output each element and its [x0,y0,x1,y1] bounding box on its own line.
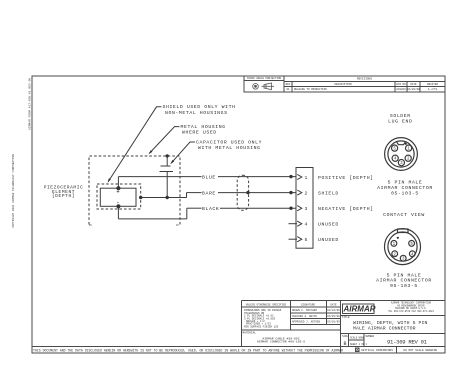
svg-text:AIRMAR CONNECTOR: AIRMAR CONNECTOR [376,278,432,284]
svg-text:B: B [343,341,346,347]
svg-text:5 PIN MALE: 5 PIN MALE [388,180,423,186]
svg-text:MALE AIRMAR CONNECTOR: MALE AIRMAR CONNECTOR [353,325,416,331]
svg-text:SHIELD: SHIELD [318,190,339,196]
svg-text:WIRING, DEPTH, WITH 5 PIN: WIRING, DEPTH, WITH 5 PIN [353,320,427,326]
svg-text:4: 4 [305,222,308,228]
svg-text:AIRMAR: AIRMAR [343,304,376,313]
svg-text:MIN SURFACE FINISH 125: MIN SURFACE FINISH 125 [244,325,279,328]
svg-text:03/26/99: 03/26/99 [327,320,340,324]
svg-text:MATERIAL: MATERIAL [243,332,257,335]
svg-text:040269: 040269 [396,88,406,91]
svg-text:CHECKED A. WHITE: CHECKED A. WHITE [292,315,317,318]
svg-text:AIRMAR CONNECTOR: AIRMAR CONNECTOR [377,185,433,191]
svg-text:DESCRIPTION: DESCRIPTION [334,83,352,86]
svg-text:TITLE: TITLE [342,316,350,319]
svg-text:BARE: BARE [202,190,216,196]
svg-text:91-369 REV 01: 91-369 REV 01 [387,339,428,346]
svg-text:UNUSED: UNUSED [318,222,339,228]
svg-text:NUMBER: NUMBER [366,335,375,338]
svg-text:DATE: DATE [410,83,417,86]
svg-text:POSITIVE [DEPTH]: POSITIVE [DEPTH] [318,175,374,181]
svg-text:DO NOT SCALE DRAWING: DO NOT SCALE DRAWING [404,349,438,352]
svg-text:REV: REV [286,83,291,86]
svg-text:COPYRIGHT 2001 AIRMAR TECHNOLO: COPYRIGHT 2001 AIRMAR TECHNOLOGY CORPORA… [12,154,15,228]
svg-text:CONTACT VIEW: CONTACT VIEW [383,212,425,218]
svg-text:ECO NO: ECO NO [396,83,406,86]
svg-text:LUG END: LUG END [388,118,412,124]
svg-text:BLACK: BLACK [202,206,219,212]
svg-text:SHEET 1 OF 1: SHEET 1 OF 1 [350,343,368,346]
svg-text:DRAFTER: DRAFTER [427,83,438,86]
svg-text:UNUSED: UNUSED [318,237,339,243]
svg-text:DATE: DATE [330,303,337,306]
svg-text:05-103-5: 05-103-5 [390,283,418,289]
svg-text:5: 5 [305,237,308,243]
svg-text:WHERE USED: WHERE USED [182,130,217,136]
svg-text:01: 01 [286,88,290,91]
svg-text:03/24/99: 03/24/99 [327,308,340,312]
svg-text:AIRMAR FORM #17-030-01 REV 00: AIRMAR FORM #17-030-01 REV 00 [29,78,32,130]
svg-text:SOLDER: SOLDER [390,113,411,119]
svg-text:AIRMAR CONNECTOR #05-103-5: AIRMAR CONNECTOR #05-103-5 [257,340,305,344]
svg-text:CRITICAL DIMENSIONS: CRITICAL DIMENSIONS [361,349,393,352]
svg-text:THIRD ANGLE PROJECTION: THIRD ANGLE PROJECTION [247,77,282,80]
svg-text:SIGNATURE: SIGNATURE [301,303,315,306]
svg-text:APPROVED J. AETKEN: APPROVED J. AETKEN [292,321,320,324]
svg-text:NEGATIVE [DEPTH]: NEGATIVE [DEPTH] [318,206,374,212]
svg-text:BLUE: BLUE [202,174,216,180]
svg-text:3: 3 [305,206,308,212]
svg-text:[DEPTH]: [DEPTH] [52,193,75,199]
svg-text:UNLESS OTHERWISE SPECIFIED: UNLESS OTHERWISE SPECIFIED [246,303,287,306]
svg-text:5 PIN MALE: 5 PIN MALE [387,272,422,278]
svg-text:05-103-5: 05-103-5 [391,191,419,197]
svg-text:RELEASE TO PRODUCTION: RELEASE TO PRODUCTION [294,88,327,91]
svg-text:METAL HOUSING: METAL HOUSING [181,124,226,130]
svg-text:SIZE: SIZE [342,335,348,338]
svg-text:TEL 603-673-9570 FAX 603-673-4: TEL 603-673-9570 FAX 603-673-4624 [388,310,434,313]
svg-text:WITH METAL HOUSING: WITH METAL HOUSING [198,145,261,151]
svg-text:NON-METAL HOUSINGS: NON-METAL HOUSINGS [165,110,228,116]
svg-text:+: + [116,189,120,196]
svg-text:03/25/99: 03/25/99 [327,314,340,318]
svg-text:1: 1 [305,175,308,181]
svg-text:A.J/TG: A.J/TG [428,87,438,91]
svg-text:SCALE NONE: SCALE NONE [350,337,365,340]
svg-text:-: - [116,200,121,207]
svg-text:REVISIONS: REVISIONS [357,78,372,81]
svg-text:2: 2 [305,190,308,196]
svg-text:THIS DOCUMENT AND THE DATA DIS: THIS DOCUMENT AND THE DATA DISCLOSED HER… [33,348,343,352]
svg-text:04/26/99: 04/26/99 [407,87,420,91]
svg-text:SHIELD USED ONLY WITH: SHIELD USED ONLY WITH [163,104,236,110]
svg-text:CAPACITOR USED ONLY: CAPACITOR USED ONLY [196,140,262,146]
svg-text:DRAWN F. MATCHEM: DRAWN F. MATCHEM [292,309,317,312]
